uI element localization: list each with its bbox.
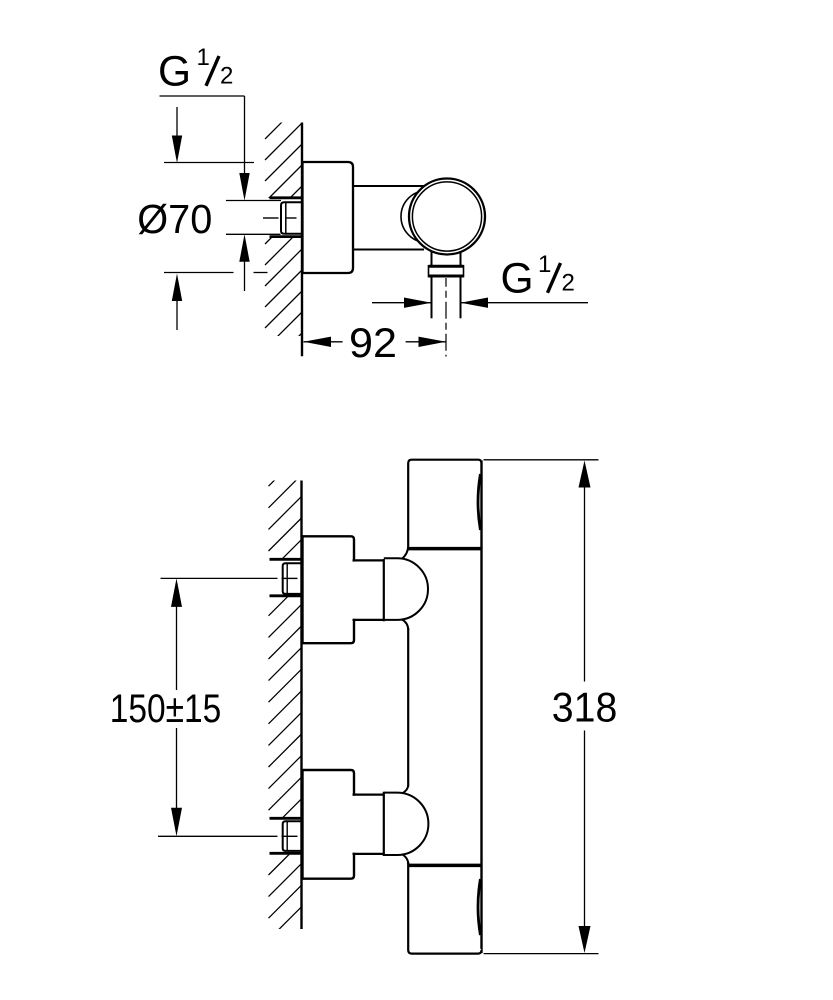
extension line body bottom — [484, 953, 599, 955]
transition collar behind knob (top view) — [401, 191, 453, 243]
dimension 318 upper arrow — [579, 461, 591, 488]
thermostat knob outer circle (top view) — [409, 179, 485, 255]
extension line body top — [484, 459, 599, 461]
valve body cylinder (top view) — [352, 186, 424, 250]
svg-text:1: 1 — [197, 44, 210, 71]
upper union escutcheon — [303, 536, 355, 643]
dimension 150±15 lower arrow — [176, 728, 178, 812]
lower wall nipple G1/2 — [283, 821, 303, 851]
svg-text:G: G — [158, 49, 191, 96]
svg-text:G: G — [501, 256, 534, 303]
outlet pipe G1/2 (top view) — [432, 277, 461, 318]
svg-text:318: 318 — [552, 683, 618, 730]
svg-text:Ø70: Ø70 — [137, 196, 212, 242]
svg-text:2: 2 — [562, 270, 575, 297]
svg-text:150±15: 150±15 — [110, 687, 222, 731]
lower union nut face — [383, 792, 385, 856]
dimension Ø70 arrow down — [176, 107, 178, 140]
lower union dome — [384, 793, 429, 855]
extension line escutcheon bottom edge — [164, 272, 234, 274]
dimension 318 lower arrow — [584, 731, 586, 931]
outlet centre line (top view) — [445, 278, 447, 357]
body parting line lower — [408, 864, 482, 868]
wall hole edges upper union — [270, 559, 303, 596]
lower union centre line / extension — [158, 835, 298, 837]
inlet centre line (top view) — [263, 217, 297, 219]
lower union escutcheon — [303, 770, 355, 879]
dimension 150±15 upper arrow — [171, 578, 182, 607]
upper union pipe — [351, 562, 384, 619]
lower union pipe — [351, 796, 384, 853]
mixer body middle left edge — [407, 628, 409, 787]
escutcheon Ø70 (top view) — [303, 162, 354, 273]
outlet G 1/2 dimension left arrow — [372, 302, 432, 304]
thermostat knob inner circle (top view) — [412, 182, 481, 251]
outlet neck (top view) — [432, 251, 461, 266]
wall line (top view) — [301, 123, 303, 357]
extension line inlet top edge — [226, 200, 281, 202]
upper union dome — [384, 558, 428, 620]
inlet connection nipple G1/2 (top view) — [281, 202, 303, 234]
dimension 92 line left with arrow — [304, 337, 332, 347]
body fillet below lower dome — [402, 854, 408, 864]
extension line inlet bottom edge — [226, 233, 281, 235]
wall line (bottom view) — [300, 481, 302, 930]
mixer body top cap — [408, 460, 481, 546]
cylinder highlight arc upper — [478, 474, 480, 530]
extension line escutcheon top edge — [164, 162, 254, 164]
wall hole edge lines (top view) — [270, 198, 303, 237]
body fillet below upper dome — [402, 620, 408, 631]
leader line for G 1/2 top — [160, 96, 245, 176]
body fillet above upper dome — [402, 546, 408, 559]
outlet G 1/2 dimension right arrow — [461, 298, 489, 308]
dimension Ø70 arrow up — [172, 274, 182, 302]
body parting line upper — [408, 547, 482, 551]
arrow up to inlet thread (G 1/2) — [239, 234, 249, 261]
mixer body right edge — [480, 461, 482, 954]
upper union centre line / extension — [161, 577, 298, 579]
arrow down to inlet thread (G 1/2) — [239, 173, 249, 201]
dimension 92 line right with arrow — [406, 341, 446, 343]
body fillet above lower dome — [402, 785, 408, 794]
outlet union nut (top view) — [429, 266, 464, 277]
cylinder highlight arc lower — [478, 879, 480, 935]
upper union nut face — [383, 559, 385, 621]
svg-text:92: 92 — [349, 319, 397, 366]
mixer body bottom cap — [408, 862, 481, 954]
svg-text:2: 2 — [220, 63, 233, 90]
wall hole edges lower union — [270, 818, 303, 853]
upper wall nipple G1/2 — [283, 563, 303, 594]
svg-text:1: 1 — [538, 251, 551, 278]
